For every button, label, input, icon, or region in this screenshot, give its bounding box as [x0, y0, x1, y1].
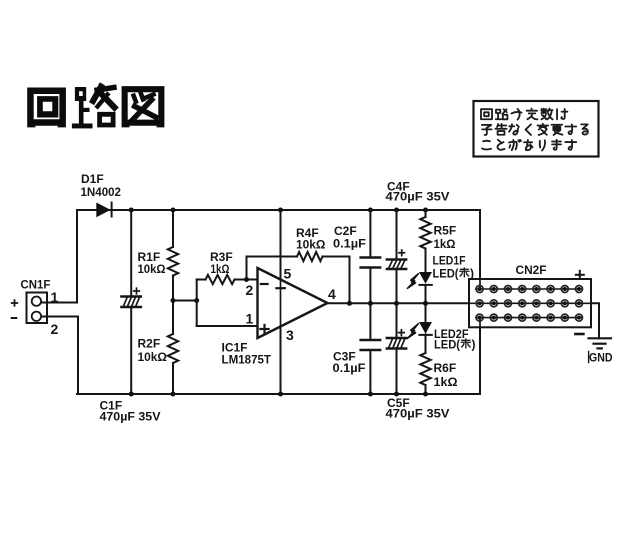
junction bottom rail / R6F: [423, 392, 428, 397]
title char 図 X stroke 1: [132, 100, 152, 121]
svg-text:2: 2: [51, 321, 59, 337]
svg-text:LED(: LED(: [433, 267, 459, 281]
svg-text:470µF 35V: 470µF 35V: [386, 407, 450, 421]
title char 図 tick 1: [134, 96, 136, 102]
op-amp U1 supply line: [280, 210, 282, 394]
title char 路 kaku top stroke: [97, 88, 114, 91]
wire output rail: [328, 302, 470, 304]
junction output / LED: [423, 301, 428, 306]
svg-text:): ): [472, 338, 476, 352]
svg-text:5: 5: [284, 266, 292, 282]
junction bottom rail / C1F: [129, 392, 134, 397]
svg-text:R2F: R2F: [138, 337, 161, 351]
CN2F plus marker: [576, 271, 584, 279]
op-amp IC1F triangle: [258, 268, 328, 338]
wire CN1F pin2 drop: [42, 317, 79, 395]
CN2F plus feed into row1: [479, 279, 481, 289]
svg-text:10kΩ: 10kΩ: [138, 350, 168, 364]
junction output / C2F-C3F: [368, 301, 373, 306]
svg-text:1kΩ: 1kΩ: [434, 237, 456, 251]
svg-text:D1F: D1F: [81, 172, 104, 186]
junction top rail / C4F: [394, 208, 399, 213]
svg-text:1kΩ: 1kΩ: [211, 262, 230, 276]
svg-text:470µF 35V: 470µF 35V: [100, 410, 161, 424]
op-amp supply plus marker: [276, 287, 284, 289]
op-amp input plus marker: [260, 325, 268, 333]
junction top rail / C1F: [129, 208, 134, 213]
wire C5F branch: [396, 303, 398, 394]
svg-text:4: 4: [328, 286, 336, 302]
wire R1F/R2F branch: [172, 210, 174, 394]
wire op-amp pin1 input: [197, 325, 257, 327]
CN2F minus marker: [575, 333, 583, 336]
junction output / C4F-C5F: [394, 301, 399, 306]
wire R3F node vertical: [196, 280, 198, 327]
title char 路 kaku sweep stroke: [100, 92, 115, 108]
title char 路 foot bottom bar: [72, 124, 93, 129]
LED1F symbol: [407, 272, 432, 288]
wire feedback riser: [247, 257, 298, 280]
svg-text:0.1µF: 0.1µF: [333, 237, 366, 251]
title char 回 inner box: [37, 96, 58, 117]
resistor R2F: [168, 334, 178, 363]
capacitor C3F plates: [361, 340, 381, 350]
resistor R3F: [206, 275, 235, 284]
wire R3F lead: [197, 279, 257, 281]
LED2F symbol: [407, 322, 432, 338]
title char 路 kaku mouth box: [97, 112, 115, 128]
connector CN2F body: [469, 279, 591, 327]
title char 図 enclosure: [122, 86, 165, 127]
title char 図 tick 3: [147, 94, 154, 97]
title char 回 outer frame: [27, 88, 66, 128]
svg-text:3: 3: [286, 327, 294, 343]
junction top rail / R1F: [171, 208, 176, 213]
svg-text:): ): [470, 267, 474, 281]
svg-text:0.1µF: 0.1µF: [333, 361, 366, 375]
note text line2: [482, 125, 492, 135]
svg-text:10kΩ: 10kΩ: [138, 262, 166, 276]
svg-text:GND: GND: [589, 351, 613, 365]
CN2F row3 bus: [476, 317, 582, 319]
svg-text:470µF 35V: 470µF 35V: [386, 190, 450, 204]
svg-text:CN1F: CN1F: [21, 278, 51, 292]
wire C1F branch lower: [130, 307, 132, 394]
title char 路 foot radical box: [75, 87, 86, 101]
title 回路図: [27, 87, 92, 128]
capacitor C1F (electrolytic): [121, 288, 140, 307]
op-amp supply line through triangle: [280, 269, 282, 338]
GND tick mark: [588, 352, 590, 363]
title char 路 kaku cross stroke: [98, 95, 108, 107]
wire CN2F row2 out to ground: [469, 303, 599, 338]
CN1F pin 2 circle: [32, 312, 41, 321]
note text line3: [482, 141, 491, 150]
CN1F plus marker: [12, 300, 18, 306]
label LED1F kanji aka: [460, 268, 471, 348]
svg-text:R5F: R5F: [434, 224, 457, 238]
title char 路 kaku first stroke: [93, 87, 101, 102]
junction divider tap left: [171, 298, 176, 303]
resistor R6F: [420, 353, 430, 385]
svg-text:LED1F: LED1F: [433, 254, 466, 268]
title char 図 tick 2: [141, 94, 143, 100]
ground symbol: [589, 338, 612, 348]
CN2F minus feed from row3: [479, 318, 481, 328]
note text line1: [481, 108, 588, 150]
capacitor C4F (electrolytic): [387, 250, 406, 269]
svg-text:1: 1: [246, 311, 254, 327]
svg-text:CN2F: CN2F: [516, 263, 547, 277]
svg-text:R6F: R6F: [434, 361, 457, 375]
svg-text:10kΩ: 10kΩ: [296, 238, 326, 252]
connector CN1F body: [27, 293, 48, 324]
junction top rail / supply: [278, 208, 283, 213]
CN2F pins grid: [476, 286, 582, 322]
wire top rail: [77, 209, 480, 211]
title char 路 foot nub: [84, 108, 90, 112]
junction inverting input node: [244, 277, 249, 282]
resistor R4F: [297, 252, 323, 261]
junction top rail / R5F: [423, 208, 428, 213]
wire CN2F plus feed: [479, 210, 481, 289]
title char 路 foot vertical: [79, 101, 84, 124]
CN2F row1 bus: [476, 288, 582, 290]
diode D1F: [96, 203, 111, 218]
CN2F row2 bus: [469, 302, 591, 304]
svg-text:2: 2: [246, 282, 254, 298]
wire bottom rail: [77, 393, 480, 395]
svg-text:1: 1: [51, 289, 59, 305]
wire feedback to output: [323, 257, 350, 304]
junction bottom rail / supply: [278, 392, 283, 397]
wire CN1F pin1 riser: [42, 210, 78, 303]
capacitor C5F (electrolytic): [387, 330, 406, 349]
svg-text:LED(: LED(: [434, 338, 460, 352]
wire C1F branch upper: [130, 210, 132, 297]
CN1F pin 1 circle: [32, 297, 41, 306]
wire C4F branch: [396, 210, 398, 303]
capacitor C2F plates: [361, 258, 381, 268]
wire C2F branch: [369, 210, 371, 303]
wire LED/R branch: [425, 210, 427, 394]
junction top rail / C2F: [368, 208, 373, 213]
svg-text:1N4002: 1N4002: [81, 185, 122, 199]
note box: [474, 101, 599, 157]
op-amp minus marker: [261, 283, 268, 285]
wire divider tap: [173, 300, 197, 302]
junction bottom rail / C5F: [394, 392, 399, 397]
wire C3F branch: [369, 303, 371, 394]
CN1F minus marker: [12, 317, 17, 319]
junction bottom rail / R2F: [171, 392, 176, 397]
resistor R5F: [420, 217, 430, 249]
title char 図 X stroke 2: [135, 106, 156, 117]
junction output / feedback: [347, 301, 352, 306]
svg-text:LM1875T: LM1875T: [222, 353, 272, 367]
resistor R1F: [168, 247, 178, 276]
junction bottom rail / C3F: [368, 392, 373, 397]
wire CN2F minus feed: [479, 318, 481, 394]
junction divider tap right: [194, 298, 199, 303]
svg-text:1kΩ: 1kΩ: [434, 375, 458, 389]
